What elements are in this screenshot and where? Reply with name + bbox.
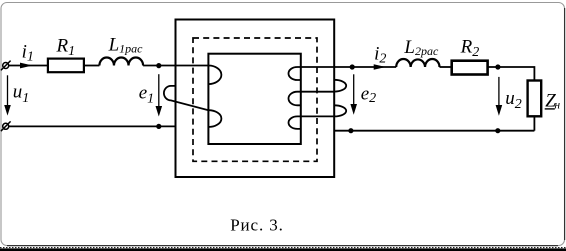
wire L1 to transformer — [143, 65, 208, 67]
secondary winding turn 2 crossing and window bump — [288, 92, 334, 106]
node dot top-right — [350, 64, 355, 69]
node dot top-left — [156, 63, 161, 68]
wire L2 to R2 — [440, 66, 452, 68]
terminal top-left — [1, 61, 11, 71]
label Zn — [545, 90, 561, 111]
node dot bottom-left — [156, 124, 161, 129]
current arrow i1 — [20, 63, 33, 69]
bottom black bar — [0, 248, 566, 251]
current arrow i2 — [374, 64, 386, 70]
node dot after R2 — [495, 64, 500, 69]
svg-text:Рис. 3.: Рис. 3. — [230, 216, 284, 235]
inductor L1ras — [99, 57, 143, 65]
node dot bottom-right near transformer — [348, 128, 353, 133]
emf arrow e2 — [350, 74, 357, 115]
wire R1 to L1 — [84, 65, 100, 67]
transformer dashed magnetic-path box — [193, 38, 317, 161]
voltage arrow u2 — [496, 77, 503, 116]
voltage arrow u1 — [4, 75, 11, 115]
wire top-left rail — [9, 65, 48, 67]
page border darker right edge — [564, 8, 566, 240]
transformer core inner box — [208, 54, 300, 144]
wire R2 to load corner — [488, 67, 535, 81]
emf arrow e1 — [156, 74, 163, 116]
transformer outer box — [176, 20, 335, 178]
page border darker bottom edge — [7, 245, 558, 247]
secondary winding outer bump 1 — [334, 80, 346, 92]
svg-text:н: н — [554, 100, 560, 112]
secondary winding turn 3 crossing and window bump — [289, 116, 335, 128]
secondary winding outer bump 2 — [334, 105, 346, 116]
wire bottom-right rail — [334, 130, 534, 132]
node dot bottom-right under R2 — [495, 128, 500, 133]
terminal bottom-left — [1, 121, 11, 131]
primary winding outer loop and crossover to turn 2 — [164, 86, 222, 127]
load impedance Zn box — [528, 81, 542, 117]
primary winding turn 1 bump — [208, 66, 221, 85]
wire Zn to bottom rail — [533, 117, 535, 131]
resistor R2 — [452, 61, 488, 75]
wire bottom-left rail — [9, 125, 176, 127]
inductor L2ras — [396, 59, 439, 67]
resistor R1 — [48, 59, 84, 73]
secondary winding turn 1: rail crossing and window bump — [288, 67, 396, 80]
